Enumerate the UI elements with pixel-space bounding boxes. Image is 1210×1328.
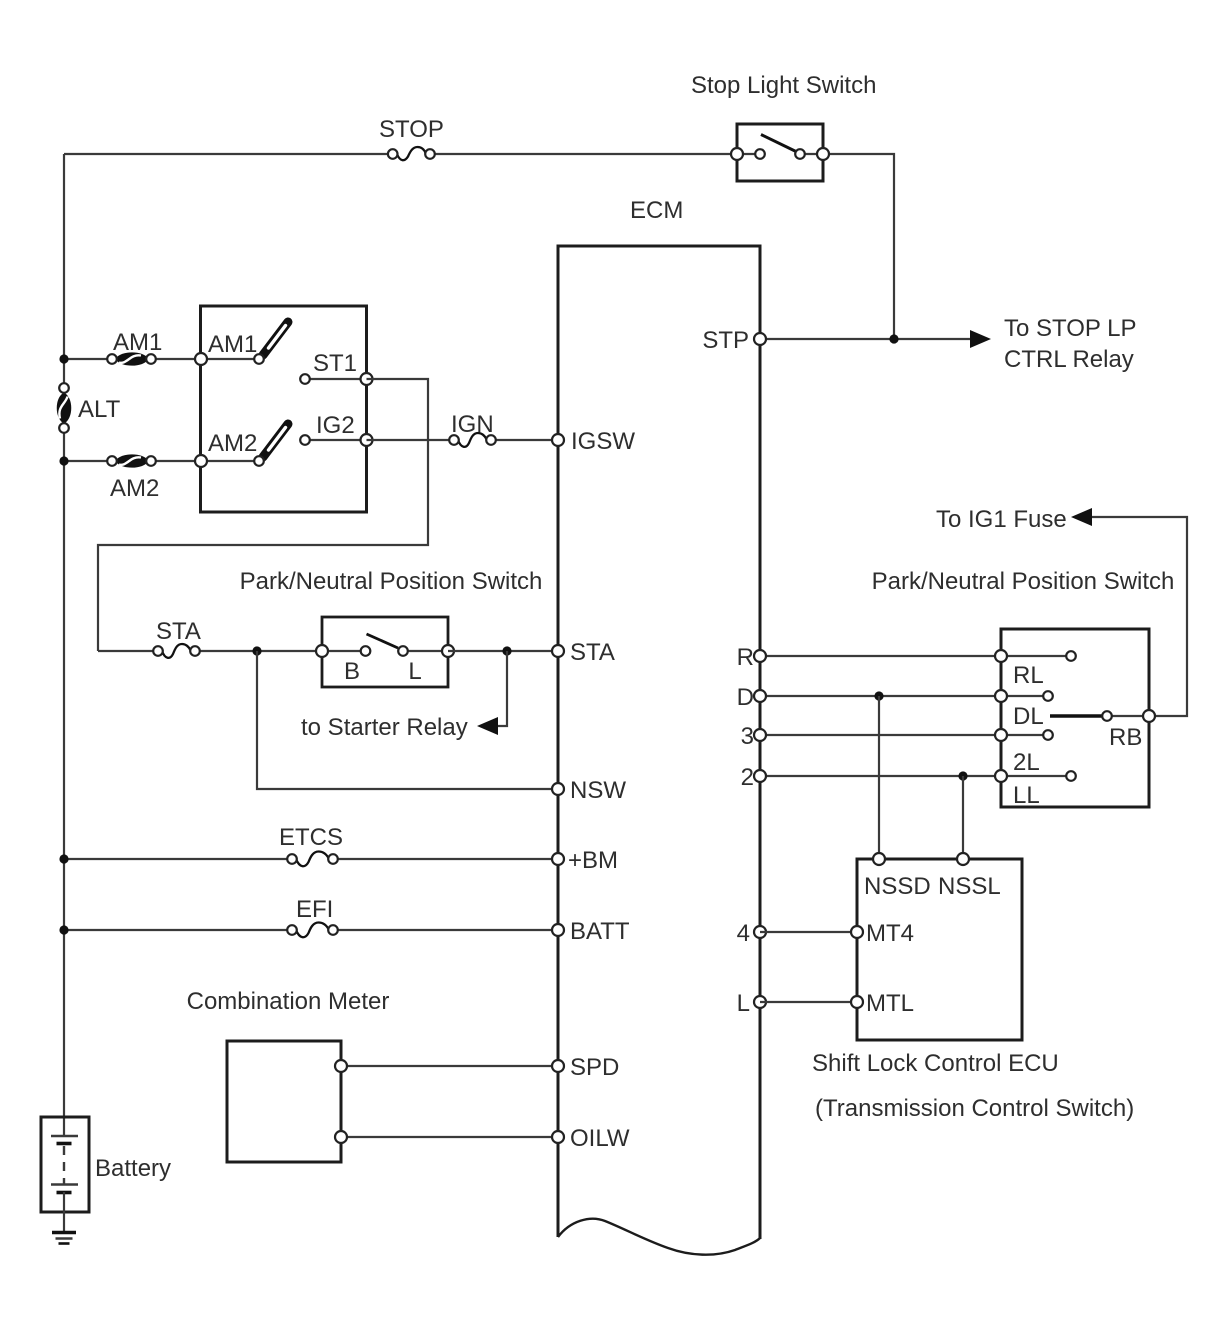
wire: 3 row [760, 734, 1001, 736]
junction dot starter relay tap [502, 646, 511, 655]
svg-text:Battery: Battery [95, 1155, 171, 1182]
svg-text:RB: RB [1109, 724, 1142, 751]
junction dot trunk/AM2 [59, 456, 68, 465]
pin D on box [995, 690, 1007, 702]
svg-text:STP: STP [702, 327, 749, 354]
fusible link AM1 [107, 353, 156, 365]
wire: AM2 feed [64, 460, 201, 462]
svg-text:B: B [344, 658, 360, 685]
wire: R row [760, 655, 1001, 657]
contact circle AM2 [254, 456, 264, 466]
svg-text:OILW: OILW [570, 1125, 630, 1152]
pin SPD on meter box [335, 1060, 347, 1072]
wire: STA feed [98, 650, 154, 652]
wire: ST1 contact to box edge [305, 378, 366, 380]
fusible link AM2 [107, 455, 156, 467]
wire: 2L contact [1001, 734, 1048, 736]
wire: DL contact [1001, 695, 1048, 697]
contact circle RB inner [1102, 711, 1112, 721]
park/neutral B-L switch box [322, 617, 448, 687]
wire: AM1 feed [64, 358, 201, 360]
junction dot STA/NSW [252, 646, 261, 655]
ECM wavy bottom edge [558, 1219, 760, 1255]
pin MTL on box [851, 996, 863, 1008]
svg-text:ETCS: ETCS [279, 824, 343, 851]
junction dot STP/stop light switch [889, 334, 898, 343]
svg-text:R: R [737, 644, 754, 671]
svg-text:ST1: ST1 [313, 350, 357, 377]
pin left stop light switch [731, 148, 743, 160]
wire: ETCS feed [64, 858, 288, 860]
switch lever B-L [367, 634, 399, 648]
svg-text:2L: 2L [1013, 749, 1040, 776]
wire: top horizontal to STOP fuse [64, 153, 389, 155]
wire: 2 row [760, 775, 1001, 777]
svg-text:To IG1 Fuse: To IG1 Fuse [936, 506, 1067, 533]
pin NSSL on box [957, 853, 969, 865]
junction dot 2/NSSL [958, 771, 967, 780]
svg-text:AM1: AM1 [208, 331, 257, 358]
wire: NSW route [257, 651, 558, 789]
svg-text:ECM: ECM [630, 197, 683, 224]
wire: ST1 route down-left to STA feed [98, 379, 428, 651]
svg-text:2: 2 [741, 764, 754, 791]
wire: L contact to right pin [403, 650, 448, 652]
junction dot trunk/ETCS [59, 854, 68, 863]
fuse IGN [449, 433, 496, 447]
pin OILW on meter box [335, 1131, 347, 1143]
pin ST1 on box [361, 373, 373, 385]
wire: IG2 to IGN fuse [367, 439, 450, 441]
fuse STA [153, 644, 200, 658]
svg-text:AM2: AM2 [110, 475, 159, 502]
svg-text:4: 4 [737, 920, 750, 947]
pin right B-L box [442, 645, 454, 657]
svg-text:L: L [408, 658, 421, 685]
svg-text:To STOP LP: To STOP LP [1004, 315, 1137, 342]
wire: left pin to left contact (stop light switch) [737, 153, 760, 155]
pin R on box [995, 650, 1007, 662]
wire: D row [760, 695, 1001, 697]
pin 3 on box [995, 729, 1007, 741]
svg-text:SPD: SPD [570, 1054, 619, 1081]
svg-text:NSW: NSW [570, 777, 626, 804]
wire: RB to box edge and out [1089, 517, 1187, 716]
ECM pin STP [754, 333, 766, 345]
ECM pin NSW [552, 783, 564, 795]
switch lever AM1 [263, 322, 288, 355]
ECM pin IGSW [552, 434, 564, 446]
shift lock control ECU box [857, 859, 1022, 1040]
svg-text:RL: RL [1013, 662, 1044, 689]
ECM pin SPD [552, 1060, 564, 1072]
contact circle RL [1066, 651, 1076, 661]
svg-text:AM1: AM1 [113, 329, 162, 356]
ECM pin 3 [754, 729, 766, 741]
wire: AM1 pin to contact [201, 358, 259, 360]
contact circle LL [1066, 771, 1076, 781]
svg-text:Stop Light Switch: Stop Light Switch [691, 72, 876, 99]
fuse ETCS [287, 852, 338, 867]
svg-text:L: L [737, 990, 750, 1017]
contact circle DL [1043, 691, 1053, 701]
junction dot trunk/AM1 [59, 354, 68, 363]
pin MT4 on box [851, 926, 863, 938]
svg-text:3: 3 [741, 723, 754, 750]
wire: IGN fuse to IGSW pin [496, 439, 558, 441]
fusible link ALT (vertical) [57, 383, 71, 433]
contact circle IG2 [300, 435, 310, 445]
wire: EFI feed [64, 929, 288, 931]
wire: stop light switch to corner and down to STP row [823, 154, 894, 339]
wire: STP pin to arrow [760, 338, 972, 340]
wire: B-L box to STA pin [448, 650, 558, 652]
svg-text:MT4: MT4 [866, 920, 914, 947]
svg-text:IG2: IG2 [316, 412, 355, 439]
svg-text:to Starter Relay: to Starter Relay [301, 714, 468, 741]
wire: LL contact [1001, 775, 1071, 777]
svg-text:BATT: BATT [570, 918, 630, 945]
battery box [41, 1117, 89, 1212]
battery plates [51, 1136, 78, 1232]
wire: NSSD drop [878, 696, 880, 859]
wire: down to starter relay arrow [497, 651, 507, 726]
wire: B-L box left pin to B contact [322, 650, 365, 652]
wire: 4 to MT4 [760, 931, 857, 933]
ECM box with wavy bottom [558, 246, 760, 1239]
wire: RL contact [1001, 655, 1071, 657]
wire: AM2 pin to contact [201, 460, 259, 462]
svg-text:Combination Meter: Combination Meter [187, 988, 390, 1015]
svg-text:Park/Neutral Position Switch: Park/Neutral Position Switch [240, 568, 543, 595]
svg-text:DL: DL [1013, 703, 1044, 730]
pin NSSD on box [873, 853, 885, 865]
arrowhead to IG1 fuse [1071, 508, 1092, 526]
junction dot trunk/EFI [59, 925, 68, 934]
stop light switch box [737, 124, 823, 181]
DL selected contact bar [1050, 714, 1107, 718]
contact circles stop light switch [755, 149, 765, 159]
ECM pin STA [552, 645, 564, 657]
wire: L to MTL [760, 1001, 857, 1003]
wire: battery trunk vertical left [63, 154, 65, 1136]
wire: IG2 contact to box edge [305, 439, 366, 441]
pin AM2 on box [195, 455, 207, 467]
pin 2 on box [995, 770, 1007, 782]
svg-text:EFI: EFI [296, 896, 333, 923]
svg-text:MTL: MTL [866, 990, 914, 1017]
wire: right contact to right pin (stop light switch) [800, 153, 823, 155]
wire: OILW [341, 1136, 558, 1138]
svg-text:NSSL: NSSL [938, 873, 1001, 900]
ECM pin +BM [552, 853, 564, 865]
pin RB on box edge [1143, 710, 1155, 722]
svg-text:IGSW: IGSW [571, 428, 635, 455]
wire: STOP fuse to stop light switch [434, 153, 737, 155]
wire: NSSL drop [962, 776, 964, 859]
fuse STOP [388, 147, 435, 160]
svg-text:Park/Neutral Position Switch: Park/Neutral Position Switch [872, 568, 1175, 595]
svg-text:CTRL Relay: CTRL Relay [1004, 346, 1134, 373]
svg-text:IGN: IGN [451, 411, 494, 438]
ground symbol [52, 1233, 76, 1244]
ECM pin BATT [552, 924, 564, 936]
svg-text:STOP: STOP [379, 116, 444, 143]
arrowhead to starter relay [477, 717, 498, 735]
contact circle B [361, 646, 371, 656]
switch lever stop light [761, 135, 796, 152]
ECM pin 2 [754, 770, 766, 782]
svg-text:STA: STA [156, 618, 201, 645]
ECM pin OILW [552, 1131, 564, 1143]
ignition switch box [201, 306, 367, 512]
svg-text:ALT: ALT [78, 396, 121, 423]
svg-text:(Transmission Control Switch): (Transmission Control Switch) [815, 1095, 1134, 1122]
contact circle AM1 [254, 354, 264, 364]
contact circle 2L [1043, 730, 1053, 740]
svg-text:+BM: +BM [568, 847, 618, 874]
pin left B-L box [316, 645, 328, 657]
wire: SPD [341, 1065, 558, 1067]
ECM pin L [754, 996, 766, 1008]
svg-text:AM2: AM2 [208, 430, 257, 457]
park/neutral position switch box right [1001, 629, 1149, 807]
pin right stop light switch [817, 148, 829, 160]
contact circle ST1 [300, 374, 310, 384]
pin IG2 on box [361, 434, 373, 446]
svg-text:LL: LL [1013, 782, 1040, 809]
junction dot D/NSSD [874, 691, 883, 700]
svg-text:Shift Lock Control ECU: Shift Lock Control ECU [812, 1050, 1059, 1077]
svg-text:STA: STA [570, 639, 615, 666]
arrowhead to STOP LP CTRL relay [970, 330, 991, 348]
ECM pin D [754, 690, 766, 702]
ECM pin 4 [754, 926, 766, 938]
fuse EFI [287, 923, 338, 938]
combination meter box [227, 1041, 341, 1162]
ECM pin R [754, 650, 766, 662]
contact circle L [398, 646, 408, 656]
switch lever AM2 [263, 424, 288, 457]
svg-text:NSSD: NSSD [864, 873, 931, 900]
pin AM1 on box [195, 353, 207, 365]
svg-text:D: D [737, 684, 754, 711]
